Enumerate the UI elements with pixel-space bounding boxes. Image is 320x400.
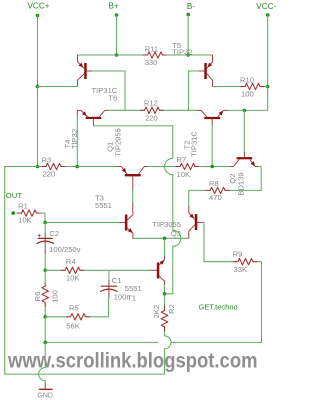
wire Q1 collector to R7: [148, 166, 176, 168]
node junction Q2 base/T2 emitter: [243, 109, 247, 113]
svg-text:R11: R11: [145, 45, 158, 54]
svg-text:5551: 5551: [95, 201, 112, 210]
resistor R8: [206, 187, 230, 193]
wire T5 collector to R10: [213, 86, 241, 88]
resistor R10: [241, 83, 265, 89]
wire R9 right down to bus1: [258, 262, 262, 343]
wire Q1 base to T3 collector: [132, 190, 134, 203]
wire row OUT left: [5, 166, 38, 168]
svg-text:T6: T6: [108, 93, 117, 102]
node junction C2/R4/R6: [43, 269, 47, 273]
svg-text:R6: R6: [33, 292, 42, 302]
resistor R6 vertical: [42, 282, 49, 307]
wire T6 base to R12 net: [92, 71, 125, 110]
transistor T3: [95, 194, 133, 239]
svg-text:R9: R9: [233, 249, 243, 258]
svg-text:VCC+: VCC+: [27, 2, 49, 11]
svg-text:TIP31C: TIP31C: [190, 131, 199, 157]
svg-text:2K2: 2K2: [152, 305, 161, 319]
wire R6 rail to bus1: [44, 317, 46, 343]
svg-text:100/250v: 100/250v: [49, 245, 80, 254]
wire R6 ends: [44, 270, 46, 283]
svg-text:GND: GND: [37, 393, 53, 400]
ground: [37, 384, 53, 400]
wire VCC+ rail upper: [37, 16, 39, 87]
node junction VCC-/R10: [266, 85, 270, 89]
wire B- rail: [187, 15, 189, 56]
node junction VCC+/T6 collector: [36, 85, 40, 89]
resistor R2 vertical: [161, 306, 168, 331]
wire T3 base run: [45, 222, 119, 224]
wire B+ rail: [116, 15, 118, 55]
wire T2 base down to R7: [211, 126, 213, 167]
transistor Q2: [228, 152, 258, 195]
svg-text:R3: R3: [42, 155, 52, 164]
wire row to Q1 emitter: [77, 166, 117, 168]
svg-text:470: 470: [209, 193, 222, 202]
transistor T6: [78, 55, 118, 102]
svg-text:R5: R5: [69, 304, 79, 313]
node VCC-: [256, 2, 276, 17]
svg-text:330: 330: [145, 58, 158, 67]
capacitor C2: [37, 223, 81, 255]
resistor R11: [143, 52, 167, 58]
resistor R9: [234, 259, 258, 265]
node junction B+/emitter wire: [115, 53, 119, 57]
resistor R3: [42, 163, 66, 169]
wire Q2 collector to R7 node: [212, 166, 229, 168]
wire R2 bottom hop over bus1: [164, 332, 166, 336]
wire top emitter rail right: [167, 54, 213, 56]
svg-text:100: 100: [241, 90, 254, 99]
node junction T3 emitter/T1: [163, 237, 167, 241]
wire C2 to R4 node: [44, 254, 46, 270]
wire R12 to T2 collector: [164, 109, 197, 111]
svg-text:R12: R12: [144, 99, 158, 108]
wire link T4 base down with hops: [172, 126, 174, 158]
svg-text:GET.techno: GET.techno: [199, 303, 238, 312]
node junction R1/C2/T3 base: [43, 221, 47, 225]
svg-text:R10: R10: [240, 75, 254, 84]
svg-text:5551: 5551: [125, 284, 142, 293]
wire Q3 base to R9: [204, 222, 234, 261]
resistor R7: [176, 163, 200, 169]
svg-text:10K: 10K: [177, 170, 191, 179]
node junction VCC+/R3: [36, 165, 40, 169]
svg-text:10K: 10K: [66, 273, 80, 282]
wire VCC- rail: [267, 15, 269, 87]
svg-text:R7: R7: [177, 155, 187, 164]
svg-text:TIP32: TIP32: [172, 48, 192, 57]
wire Q2 base up: [243, 110, 245, 152]
capacitor C1: [101, 270, 131, 301]
wire R3 ends: [38, 166, 42, 168]
wire T4 collector to R12: [108, 109, 140, 111]
resistor R5: [66, 314, 90, 320]
svg-text:T1: T1: [127, 293, 136, 302]
transistor Q3: [152, 206, 204, 238]
wire GND drop with hop over bus2: [44, 342, 46, 367]
wire T2 emitter run: [227, 109, 244, 111]
transistor T1: [151, 256, 165, 286]
wire bus2: [5, 373, 165, 375]
wire VCC- rail to T2 emitter: [244, 87, 267, 111]
transistor T2: [183, 110, 228, 156]
wire T4 emitter down to R3: [76, 116, 78, 167]
svg-text:220: 220: [43, 170, 56, 179]
svg-text:R2: R2: [167, 304, 176, 314]
svg-text:10K: 10K: [18, 215, 32, 224]
wire R8 to Q3 emitter: [189, 190, 206, 206]
resistor R12: [140, 107, 164, 113]
wire bus1: [171, 341, 262, 343]
wire T1 collector down: [164, 285, 166, 294]
svg-text:OUT: OUT: [6, 191, 23, 200]
node junction B-/emitter wire: [186, 53, 190, 57]
svg-text:C1: C1: [112, 276, 122, 285]
svg-text:VCC-: VCC-: [256, 2, 276, 11]
svg-text:B+: B+: [108, 1, 118, 10]
svg-text:TIP3055: TIP3055: [152, 220, 181, 229]
wire R2 top: [164, 294, 166, 306]
wire T6 collector to VCC+: [38, 86, 78, 88]
resistor R1: [11, 211, 15, 215]
svg-text:TIP2955: TIP2955: [113, 128, 122, 157]
svg-text:220: 220: [145, 113, 158, 122]
wire R7 to T2 base node: [200, 166, 213, 168]
svg-text:BD139: BD139: [237, 172, 246, 195]
node B-: [186, 2, 195, 16]
node junction T1 collector/R2/link: [163, 292, 167, 296]
node junction R6/bus1/GND: [43, 341, 47, 345]
wire OUT vertical: [4, 167, 6, 375]
transistor T4: [63, 110, 108, 149]
resistor R4: [61, 267, 85, 273]
node junction R3/T4 emitter: [76, 165, 80, 169]
svg-text:33K: 33K: [234, 265, 248, 274]
wire T1 emitter up: [164, 238, 166, 255]
wire top emitter rail left: [78, 54, 144, 56]
svg-text:R8: R8: [209, 179, 219, 188]
wire R4 row to T1 base: [45, 269, 60, 271]
wire VCC+ rail lower: [37, 87, 39, 167]
wire R1 to T3 base node: [41, 213, 45, 222]
wire Q2 emitter loop to R8: [230, 167, 262, 191]
svg-text:B-: B-: [187, 2, 195, 11]
wire R10 to VCC-: [265, 86, 268, 88]
wire T5 base down: [189, 71, 199, 110]
node VCC+: [27, 2, 49, 18]
transistor T5: [172, 41, 212, 87]
wire T3 emitter row: [133, 237, 189, 239]
wire R5 row and up to C1: [45, 316, 66, 318]
node junction R6/R5: [43, 315, 47, 319]
svg-text:56K: 56K: [66, 321, 80, 330]
wire T4 base to link: [93, 125, 172, 127]
transistor Q1: [105, 128, 148, 190]
svg-text:100: 100: [50, 290, 59, 303]
svg-text:C2: C2: [49, 229, 59, 238]
svg-text:R4: R4: [66, 257, 76, 266]
svg-text:R1: R1: [18, 202, 28, 211]
svg-text:www.scrollink.blogspot.com: www.scrollink.blogspot.com: [7, 350, 257, 373]
node junction R7/T2 base/Q2 collector: [210, 165, 214, 169]
node B+: [108, 1, 118, 16]
